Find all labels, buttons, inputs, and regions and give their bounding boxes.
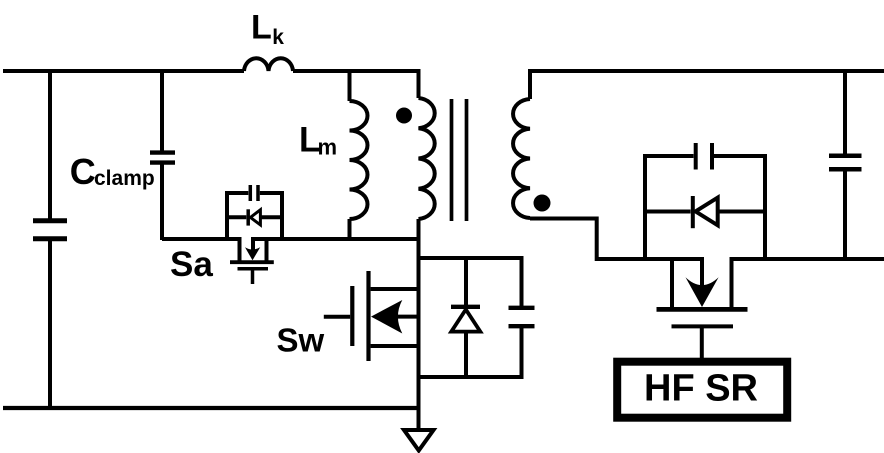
svg-text:m: m [318, 135, 338, 160]
svg-text:C: C [70, 151, 96, 192]
svg-text:HF SR: HF SR [644, 368, 758, 410]
svg-text:Sw: Sw [277, 322, 325, 359]
svg-text:L: L [251, 9, 272, 47]
svg-text:k: k [272, 26, 284, 49]
svg-text:clamp: clamp [94, 167, 155, 190]
svg-text:Sa: Sa [170, 245, 213, 284]
